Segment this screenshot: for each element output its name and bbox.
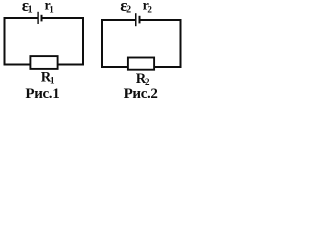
svg-text:Рис.2: Рис.2 — [124, 86, 158, 101]
wire: circuit 2 top-right segment — [141, 19, 182, 21]
svg-text:Рис.1: Рис.1 — [25, 86, 59, 101]
wire: circuit 2 left side — [101, 19, 103, 68]
cell E2 short plate — [139, 16, 141, 24]
wire: circuit 1 bottom-left segment — [4, 64, 31, 66]
wire: circuit 1 left side — [4, 17, 6, 66]
wire: circuit 2 bottom-right segment — [155, 66, 182, 68]
resistor R1 — [30, 56, 57, 69]
wire: circuit 1 bottom-right segment — [58, 64, 85, 66]
cell E1 short plate — [41, 15, 43, 22]
wire: circuit 1 right side — [82, 17, 84, 66]
cell E2 long plate — [135, 13, 137, 26]
wire: circuit 2 bottom-left segment — [101, 66, 128, 68]
wire: circuit 2 top-left segment — [101, 19, 136, 21]
wire: circuit 1 top-right segment — [43, 17, 85, 19]
wire: circuit 1 top-left segment — [4, 17, 38, 19]
wire: circuit 2 right side — [180, 19, 182, 68]
resistor R2 — [128, 58, 154, 70]
cell E1 long plate — [37, 12, 38, 24]
